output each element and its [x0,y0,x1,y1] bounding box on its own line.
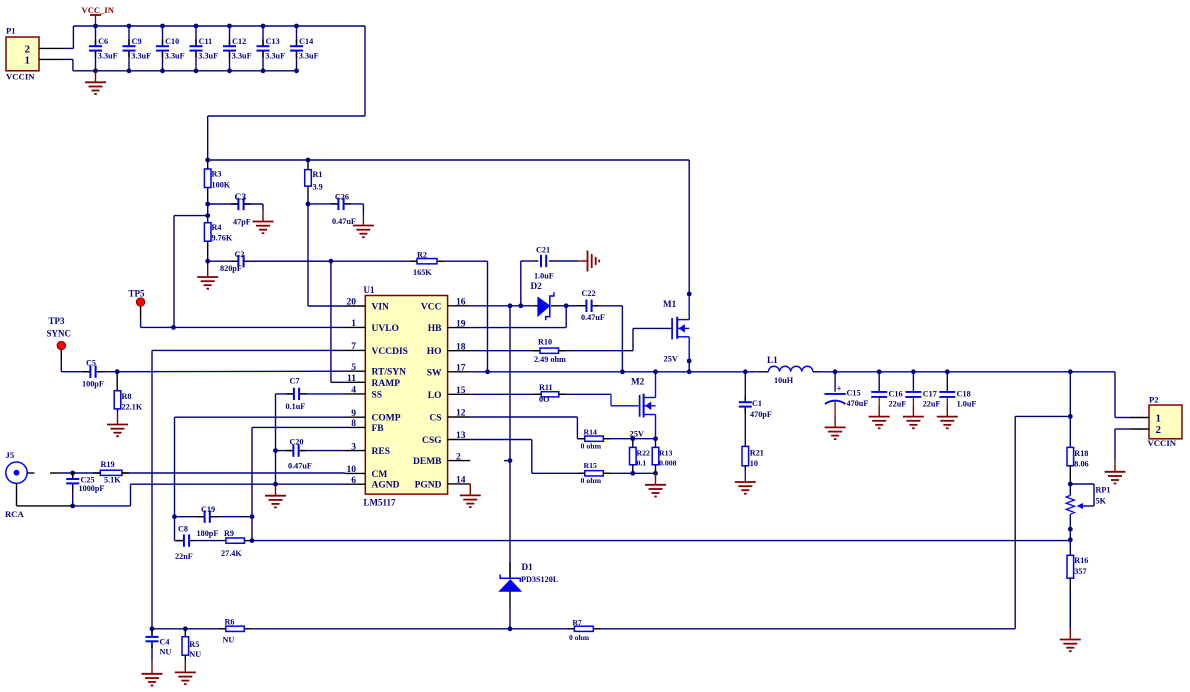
svg-text:2: 2 [1156,424,1162,436]
svg-text:R9: R9 [224,529,234,538]
svg-text:LM5117: LM5117 [364,498,397,508]
ground P2 [1105,460,1126,483]
svg-text:C26: C26 [335,192,349,201]
wire TP5 to UVLO [141,306,345,330]
op-amp U1 LM5117 [347,285,466,508]
svg-text:0 ohm: 0 ohm [581,476,602,485]
svg-text:PD3S120L: PD3S120L [521,575,559,584]
svg-text:R3: R3 [212,170,222,179]
diode D2 [531,281,586,320]
svg-text:C19: C19 [201,505,215,514]
node RP1 bottom [1068,527,1073,540]
capacitor C10 3.3uF [156,24,185,74]
svg-text:2.49 ohm: 2.49 ohm [534,355,566,364]
svg-text:0O: 0O [539,395,549,404]
svg-text:3.9: 3.9 [313,183,323,192]
wire M1 source [687,359,692,375]
svg-text:C15: C15 [847,389,861,398]
svg-text:FB: FB [372,424,385,434]
wire P2 gnd [1114,429,1116,460]
pin 4 SS [345,393,365,395]
node R3/R4 UVLO tap [205,202,210,223]
svg-text:C11: C11 [199,37,213,46]
wire RAMP riser [331,261,345,382]
wire FB long [252,540,1070,542]
capacitor C2 820pF [208,250,331,273]
capacitor C3 47pF [208,193,263,227]
pin P2-1 [1115,417,1149,419]
svg-text:0.47uF: 0.47uF [288,462,312,471]
svg-text:R4: R4 [212,223,222,232]
node M2 drain [653,369,658,374]
wire COMP [175,417,346,517]
wire VCC to D1 [509,306,511,578]
wire CS [470,417,585,439]
pin 13 CSG [448,439,471,441]
svg-text:COMP: COMP [372,414,401,424]
testpoint TP5 [129,289,146,307]
ground R16 [1060,628,1081,651]
svg-text:C7: C7 [290,376,300,385]
svg-text:C13: C13 [266,37,280,46]
svg-text:C21: C21 [536,246,550,255]
svg-text:C12: C12 [232,37,246,46]
svg-text:10: 10 [750,459,758,468]
pin 11 RAMP [345,381,365,383]
pin P1-2 [39,47,73,49]
pin J5 [27,472,34,474]
svg-text:AGND: AGND [372,481,400,491]
node FB/R9 [250,538,255,543]
svg-text:C4: C4 [160,638,170,647]
resistor R3 100K [204,158,230,204]
svg-text:C2: C2 [235,250,245,259]
svg-text:3.3uF: 3.3uF [98,52,118,61]
pin 5 RT/SYN [345,370,365,372]
capacitor C8 22nF [175,525,196,562]
pin 7 VCCDIS [345,349,365,351]
svg-text:47pF: 47pF [233,218,251,227]
wire HB [470,306,566,328]
svg-text:C16: C16 [889,390,903,399]
svg-text:0 ohm: 0 ohm [581,442,602,451]
ground R5 [175,661,196,684]
svg-text:+: + [837,384,842,394]
svg-text:0.47uF: 0.47uF [332,217,356,226]
pin 18 HO [448,350,471,352]
ground R4/C2 [197,266,218,289]
inductor L1 10uH [758,355,820,385]
wire C8 drop [174,517,176,541]
resistor R9 27.4K [195,529,252,558]
svg-text:P1: P1 [6,26,16,36]
wire VOUT riser to P2 [1114,372,1116,418]
pin 8 FB [345,426,365,428]
wire vout sense link [1015,416,1070,628]
svg-text:22.1K: 22.1K [122,403,143,412]
node C19 right [250,514,255,519]
svg-text:R11: R11 [539,383,553,392]
svg-text:D2: D2 [531,281,543,291]
svg-text:M2: M2 [631,377,645,387]
resistor R16 357 [1067,540,1088,628]
svg-text:NU: NU [160,648,172,657]
svg-text:C3: C3 [235,193,247,203]
resistor R8 22.1K [114,372,143,413]
diode D1 PD3S120L [500,562,559,629]
svg-text:22uF: 22uF [889,400,907,409]
resistor R19 5.1K [93,460,345,485]
svg-text:1: 1 [1156,412,1162,424]
potentiometer RP1 5K [1066,484,1110,529]
pin 9 COMP [345,416,365,418]
svg-text:R10: R10 [538,337,552,346]
node C19 left [172,514,177,519]
svg-text:HB: HB [428,324,442,334]
wire AGND [131,482,346,487]
resistor R21 10 [742,446,764,470]
pin 16 VCC [448,305,471,307]
svg-text:L1: L1 [767,355,778,365]
ground C4 [142,662,163,685]
svg-text:C17: C17 [923,390,937,399]
ground C21 rotated [578,251,599,272]
svg-text:R16: R16 [1074,556,1088,565]
transistor M1 [663,294,689,364]
svg-text:1.0uF: 1.0uF [957,400,977,409]
wire RT/SYN [117,370,345,373]
svg-text:100pF: 100pF [82,380,104,389]
capacitor C14 3.3uF [290,24,319,74]
ground C17 [903,405,924,428]
connector J5 RCA [5,450,27,519]
capacitor C1 470pF [739,372,772,447]
svg-text:0.1: 0.1 [637,459,647,468]
capacitor C19 180pF [175,505,253,538]
svg-text:R14: R14 [584,428,598,437]
node R5 [183,626,188,631]
transistor M2 [631,372,656,439]
wire M1 drain [687,160,692,296]
ground C15 [825,416,846,439]
ground R13 [645,473,666,496]
svg-text:J5: J5 [6,450,15,460]
svg-text:DEMB: DEMB [413,457,442,467]
resistor R18 8.06 [1067,447,1089,484]
svg-text:NU: NU [189,650,201,659]
svg-text:R13: R13 [659,449,673,458]
wire R11 to M2 gate [611,394,639,406]
svg-text:C6: C6 [98,37,108,46]
svg-text:5K: 5K [1096,497,1107,506]
svg-text:3.3uF: 3.3uF [265,52,285,61]
svg-text:NU: NU [223,635,235,644]
svg-text:357: 357 [1074,567,1086,576]
power flag VCC_IN [82,5,115,26]
node C25 [70,471,75,476]
svg-text:VCCIN: VCCIN [6,71,35,81]
wire TP3 drop [60,350,62,372]
capacitor C26 0.47uF [308,192,363,226]
svg-text:C20: C20 [290,437,304,446]
svg-text:R7: R7 [573,618,582,627]
connector P1 [6,26,39,82]
wire C26 gnd drop [362,204,364,214]
svg-text:10uH: 10uH [774,376,794,385]
svg-text:470pF: 470pF [750,410,772,419]
svg-text:3.3uF: 3.3uF [299,52,319,61]
svg-text:C10: C10 [165,37,179,46]
wire SS/C7 drop [273,394,278,484]
wire VIN riser [308,204,345,306]
resistor R15 0 ohm [578,461,656,485]
svg-text:C9: C9 [132,37,142,46]
resistor R11 0O [470,383,611,404]
svg-text:3.3uF: 3.3uF [198,52,218,61]
svg-text:C8: C8 [178,525,188,534]
wire J5 to R19 [50,472,100,474]
svg-text:0.008: 0.008 [659,459,677,468]
wire SW rail [470,371,757,373]
ground C26 [353,214,374,237]
svg-text:VIN: VIN [372,303,390,313]
svg-text:SYNC: SYNC [47,329,72,339]
wire R4 gnd stub [207,261,209,265]
wire R2 to SW [485,261,490,374]
svg-text:R6: R6 [225,618,235,627]
wire DEMB stub [504,458,512,463]
capacitor C25 1000pF [66,472,104,508]
svg-text:0.1uF: 0.1uF [286,402,306,411]
capacitor C15 470uF polarized [825,369,869,416]
node HB/C22 [564,303,569,308]
svg-text:3.3uF: 3.3uF [131,52,151,61]
wire VCC_IN top rail [73,26,365,160]
svg-text:SS: SS [372,390,383,400]
svg-text:25V: 25V [664,355,678,364]
svg-text:R15: R15 [584,461,598,470]
capacitor C18 1.0uF [939,369,976,408]
node D1 anode [508,626,513,631]
wire J5 shell [17,483,131,506]
svg-text:D1: D1 [522,562,534,572]
resistor R14 0 ohm [578,428,656,451]
svg-text:470uF: 470uF [847,399,869,408]
ground R21 [735,471,756,494]
svg-text:HO: HO [427,347,442,357]
pin P2-2 [1115,428,1149,430]
svg-text:R21: R21 [750,449,764,458]
pin 14 PGND [448,483,471,485]
ground C18 [937,405,958,428]
svg-text:0.47uF: 0.47uF [581,313,605,322]
svg-text:M1: M1 [663,299,677,309]
capacitor C4 NU [146,629,172,663]
capacitor C16 22uF [871,369,906,408]
svg-text:VCCIN: VCCIN [1148,438,1177,448]
capacitor C17 22uF [905,369,940,408]
svg-text:1: 1 [25,55,31,67]
ground C16 [869,405,890,428]
svg-text:RT/SYN: RT/SYN [372,368,407,378]
pin 19 HB [448,327,471,329]
resistor R22 0.1 [630,436,651,475]
svg-text:820pF: 820pF [220,264,242,273]
capacitor C13 3.3uF [257,24,286,74]
resistor R13 0.008 [652,439,676,476]
connector P2 [1148,394,1183,448]
svg-text:R2: R2 [417,251,427,260]
svg-text:RAMP: RAMP [372,379,401,389]
svg-text:R22: R22 [637,449,651,458]
ground input bank [85,71,106,94]
wire output rail [820,371,1116,373]
svg-text:VCC: VCC [421,302,442,312]
svg-text:C5: C5 [86,358,96,367]
resistor R5 NU [182,629,201,661]
svg-text:22nF: 22nF [175,552,193,561]
capacitor C20 0.47uF [276,437,346,470]
svg-text:C18: C18 [957,390,971,399]
pin 17 SW [448,371,471,373]
pin 1 UVLO [345,326,365,328]
wire R18 drop [1068,372,1073,448]
svg-text:165K: 165K [413,268,432,277]
svg-text:SW: SW [427,368,442,378]
svg-text:R19: R19 [101,460,115,469]
capacitor C22 0.47uF [566,289,622,322]
wire bottom rail [152,628,1015,630]
svg-text:CM: CM [372,470,388,480]
svg-text:R1: R1 [313,170,323,179]
pin 15 LO [448,393,471,395]
node R4 bottom [205,259,210,264]
pin P1-1 [39,58,73,60]
node FB tap [1068,537,1073,542]
node M2 source [653,436,658,441]
capacitor C6 3.3uF [89,24,118,74]
svg-text:3.3uF: 3.3uF [232,52,252,61]
svg-text:100K: 100K [212,181,231,190]
resistor R2 165K [243,251,488,277]
wire C22 to SW [620,306,625,374]
capacitor C9 3.3uF [123,24,152,74]
wire VCCDIS [152,350,345,628]
svg-text:5.1K: 5.1K [104,476,121,485]
resistor R4 9.76K [204,223,232,262]
capacitor C7 0.1uF [276,376,346,411]
resistor R1 3.9 [305,158,323,204]
resistor R10 2.49 ohm [470,337,633,364]
svg-text:C22: C22 [582,289,596,298]
svg-text:22uF: 22uF [923,400,941,409]
wire C3 gnd drop [262,204,264,210]
svg-text:8.06: 8.06 [1074,460,1088,469]
node RP1 top [1068,482,1073,487]
svg-text:0 ohm: 0 ohm [569,633,590,642]
svg-text:P2: P2 [1149,394,1159,404]
resistor R7 0 ohm [567,618,600,642]
pin 3 RES [345,450,365,452]
node C1 [743,369,748,374]
svg-text:PGND: PGND [415,480,442,490]
resistor R6 NU [219,618,245,645]
svg-text:U1: U1 [364,285,375,295]
testpoint TP3 SYNC [47,316,72,350]
svg-text:1.0uF: 1.0uF [534,271,554,280]
svg-text:R18: R18 [1074,449,1088,458]
capacitor C21 1.0uF [521,246,578,306]
node R1/C26/VIN [306,202,311,207]
capacitor C5 100pF [61,358,117,388]
wire VCC [470,303,533,308]
svg-text:9.76K: 9.76K [212,234,233,243]
svg-text:RES: RES [372,447,390,457]
svg-text:VCC_IN: VCC_IN [82,5,115,15]
wire VCC rail mid [208,159,690,161]
node C5/R8 [115,369,120,374]
svg-text:1000pF: 1000pF [79,484,105,493]
svg-text:RP1: RP1 [1096,486,1111,495]
svg-text:TP5: TP5 [129,289,146,299]
svg-text:R5: R5 [189,640,199,649]
pin 2 DEMB [448,460,471,462]
node C4 [150,626,155,631]
wire CSG [470,440,585,474]
pin 6 AGND [345,483,365,485]
pin 12 CS [448,416,471,418]
svg-text:VCCDIS: VCCDIS [372,347,408,357]
svg-text:C1: C1 [752,399,762,408]
svg-text:C14: C14 [299,37,313,46]
ground C3 [253,210,274,233]
node RAMP [329,259,334,264]
wire UVLO tap branch [174,216,208,328]
capacitor C12 3.3uF [223,24,252,74]
svg-text:3.3uF: 3.3uF [165,52,185,61]
wire R10 to M1 gate [633,328,671,350]
svg-text:TP3: TP3 [49,316,66,326]
wire input gnd rail [73,59,298,70]
svg-text:UVLO: UVLO [372,324,399,334]
pin 20 VIN [345,305,365,307]
svg-text:LO: LO [428,391,442,401]
node VOUT sense [1068,369,1073,374]
svg-text:180pF: 180pF [197,529,219,538]
svg-text:CSG: CSG [422,436,442,446]
label 25V sense [630,430,644,439]
capacitor C11 3.3uF [190,24,219,74]
svg-text:RCA: RCA [5,509,25,519]
ground AGND [265,484,286,507]
svg-text:R8: R8 [122,392,132,401]
svg-text:27.4K: 27.4K [221,549,242,558]
wire FB drop [252,427,345,540]
pin 10 CM [345,472,365,474]
svg-text:CS: CS [429,414,441,424]
ground PGND [460,484,481,507]
ground R8 [107,413,128,436]
